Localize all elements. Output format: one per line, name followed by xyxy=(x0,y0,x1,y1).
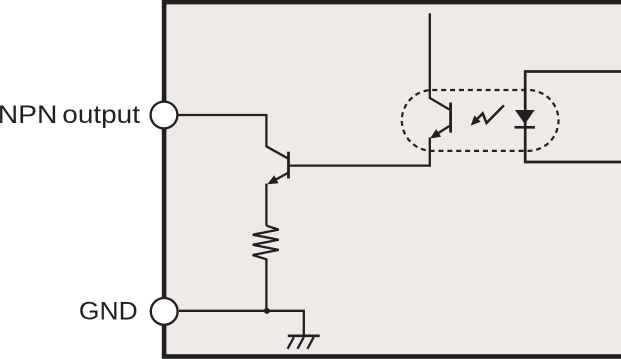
svg-text:NPN: NPN xyxy=(0,101,57,129)
svg-text:GND: GND xyxy=(79,298,138,326)
svg-text:output: output xyxy=(62,101,140,129)
